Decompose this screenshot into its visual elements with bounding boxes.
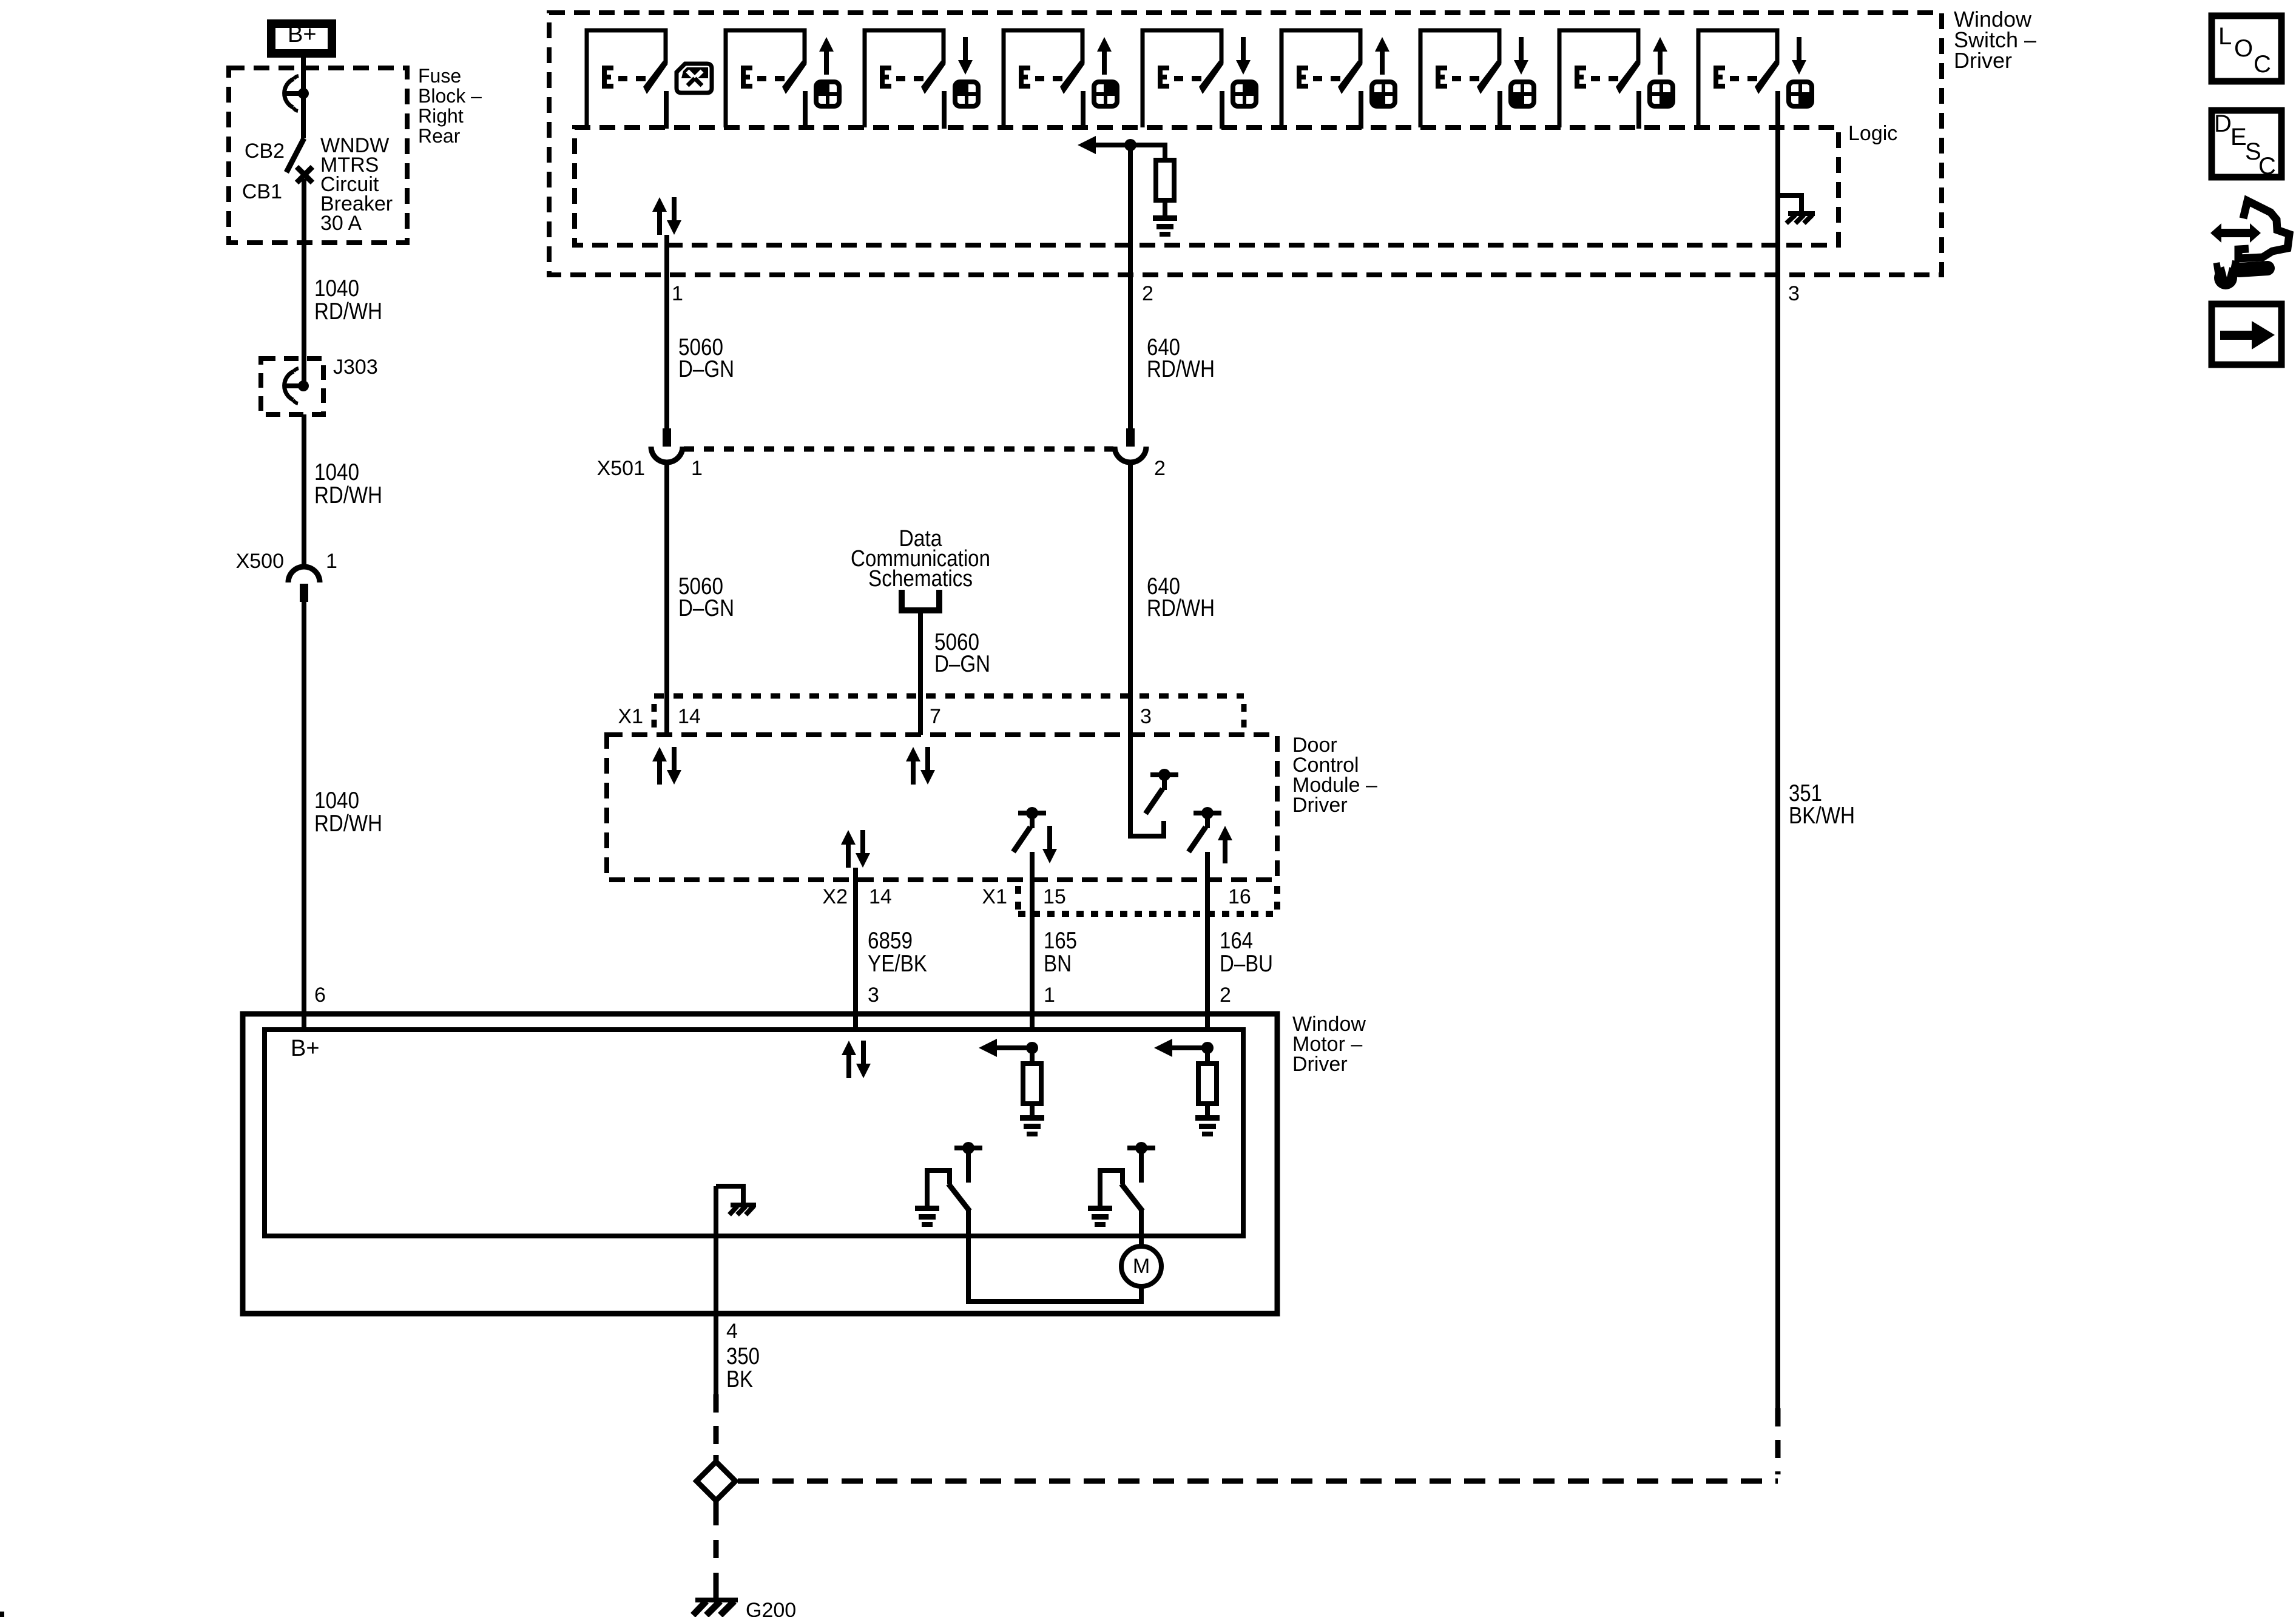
svg-text:B+: B+	[288, 22, 317, 47]
wire 2: pin2 to X501-2, 640 RD/WH	[1130, 275, 1215, 428]
wire X501-1 to X1-14, 5060 D-GN	[667, 464, 734, 735]
wire 3: pin 3 to splice, 351 BK/WH	[1778, 275, 1855, 1474]
window switch SW2 (TL up)	[726, 30, 839, 129]
svg-text:30 A: 30 A	[320, 212, 362, 235]
wire J303 to X500, 1040 RD/WH	[304, 414, 382, 569]
up/down arrows below pin 7	[906, 747, 935, 785]
svg-text:350: 350	[726, 1343, 760, 1369]
svg-text:D–BU: D–BU	[1220, 951, 1273, 977]
wire SW9 pole to ground branch and pin 3	[1775, 129, 1780, 275]
page corner mark	[0, 1612, 4, 1617]
window motor inner box	[265, 1030, 1243, 1236]
input arrow + pull resistor + ground at motor pin 1	[979, 1039, 1044, 1136]
svg-text:O: O	[2234, 35, 2253, 62]
svg-text:Logic: Logic	[1848, 122, 1897, 145]
dashed wire splice to wire 3 corner	[738, 1479, 1778, 1484]
svg-text:16: 16	[1228, 885, 1251, 908]
svg-text:3: 3	[1788, 282, 1800, 305]
svg-text:BK: BK	[726, 1366, 753, 1393]
label: Logic	[1848, 122, 1897, 145]
junction J303 (dashed box with splice)	[261, 356, 378, 414]
X501 dashed tie line	[684, 447, 1113, 452]
svg-text:1040: 1040	[314, 788, 359, 814]
motor switch A (to ground / feed)	[915, 1142, 982, 1227]
up/down arrows below motor pin 3	[842, 1041, 871, 1078]
pin 2	[1142, 282, 1153, 305]
svg-text:7: 7	[930, 705, 941, 728]
connector X2 label	[822, 885, 848, 908]
up/down arrows below pin 14	[652, 747, 681, 785]
svg-text:D–GN: D–GN	[678, 356, 734, 382]
ground G200	[693, 1599, 796, 1617]
wire 1: pin1 to X501-1, 5060 D-GN	[667, 245, 734, 428]
label 6859 YE/BK	[868, 928, 927, 977]
window switch SW3 (TL down)	[865, 30, 978, 129]
motor M	[1121, 1246, 1161, 1286]
svg-text:E: E	[2230, 124, 2247, 150]
wire B+ to fuse block	[301, 58, 306, 93]
label: Data Communication Schematics	[851, 526, 990, 592]
dashed wire splice to G200	[714, 1507, 719, 1598]
svg-text:1040: 1040	[314, 275, 359, 302]
up/down arrows above X2-14	[841, 830, 870, 868]
svg-text:RD/WH: RD/WH	[314, 482, 382, 508]
motor pin 2	[1220, 984, 1231, 1007]
pin 15	[1043, 885, 1066, 908]
junction node on wire 2 with direction arrow	[1078, 136, 1165, 160]
switch above pin 15 (window down)	[1013, 807, 1057, 863]
svg-text:Driver: Driver	[1292, 1053, 1348, 1076]
svg-text:Rear: Rear	[418, 125, 461, 147]
label 165 BN	[1044, 928, 1077, 977]
svg-text:6859: 6859	[868, 928, 913, 954]
window switch - driver outer box (dashed)	[549, 13, 1942, 275]
svg-text:D–GN: D–GN	[678, 595, 734, 621]
svg-text:YE/BK: YE/BK	[868, 951, 927, 977]
pin 4 and wire 350 BK	[716, 1314, 760, 1394]
label: Door Control Module - Driver	[1292, 734, 1377, 817]
label B+ inside motor	[291, 1036, 320, 1061]
wire pin 3 into module with hook	[1130, 735, 1164, 836]
svg-text:G200: G200	[746, 1599, 796, 1617]
svg-text:1: 1	[326, 550, 337, 573]
svg-text:Driver: Driver	[1954, 48, 2012, 73]
window switch SW4 (TR up)	[1004, 30, 1117, 129]
svg-text:B+: B+	[291, 1036, 320, 1061]
svg-text:14: 14	[678, 705, 701, 728]
switch (express) inside module	[1146, 769, 1178, 814]
legend LOC box	[2212, 16, 2281, 81]
wire pin1 inside logic	[664, 235, 669, 245]
legend DESC box	[2212, 110, 2281, 180]
window switch SW9 (BR down)	[1698, 30, 1812, 129]
wire CB to J303, 1040 RD/WH	[304, 179, 382, 386]
wire switch A common down and across to motor	[968, 1210, 1141, 1301]
wire splice to CB	[301, 93, 306, 138]
svg-text:3: 3	[868, 984, 879, 1007]
wire X2-14 to motor pin 3	[853, 868, 858, 1030]
switch above pin 16 (window up)	[1189, 807, 1232, 863]
svg-text:X2: X2	[822, 885, 848, 908]
input arrow + pull resistor + ground at motor pin 2	[1154, 1039, 1220, 1136]
svg-text:RD/WH: RD/WH	[314, 299, 382, 325]
pin 3	[1788, 282, 1800, 305]
dashed wire pin4 to splice	[714, 1394, 719, 1459]
wire switch B common to motor top	[1139, 1210, 1144, 1246]
wire data comm to X1-7, 5060 D-GN	[920, 610, 990, 735]
circuit breaker CB1/CB2 WNDW MTRS 30A	[242, 138, 312, 203]
svg-text:X501: X501	[597, 457, 645, 480]
svg-text:C: C	[2254, 51, 2271, 78]
motor pin 1	[1044, 984, 1055, 1007]
svg-text:X1: X1	[982, 885, 1007, 908]
wire X501-2 to X1-3, 640 RD/WH	[1130, 464, 1215, 735]
label: Window Switch - Driver	[1954, 7, 2036, 73]
svg-text:165: 165	[1044, 928, 1077, 954]
window switch SW8 (BR up)	[1559, 30, 1673, 129]
window switch SW7 (BL down)	[1420, 30, 1534, 129]
resistor in logic box	[1156, 160, 1174, 200]
svg-text:1: 1	[1044, 984, 1055, 1007]
svg-text:1: 1	[691, 457, 703, 480]
chassis ground inside motor box	[716, 1186, 756, 1215]
svg-text:C: C	[2258, 153, 2276, 180]
pin 3	[1140, 705, 1152, 728]
svg-text:RD/WH: RD/WH	[314, 811, 382, 837]
svg-text:Schematics: Schematics	[868, 566, 973, 592]
door control module - driver box (dashed)	[607, 735, 1277, 880]
svg-text:1: 1	[672, 282, 683, 305]
label 164 D-BU	[1220, 928, 1273, 977]
svg-text:D: D	[2214, 110, 2232, 137]
connector X1 (top) dotted line	[654, 696, 1244, 728]
svg-text:X1: X1	[618, 705, 643, 728]
label: Fuse Block - Right Rear	[418, 65, 482, 147]
svg-text:Driver: Driver	[1292, 794, 1348, 817]
svg-text:CB1: CB1	[242, 180, 282, 203]
svg-text:Block –: Block –	[418, 85, 482, 107]
window switch SW6 (BL up)	[1281, 30, 1395, 129]
pin 16	[1228, 885, 1251, 908]
svg-text:RD/WH: RD/WH	[1147, 595, 1215, 621]
svg-text:BN: BN	[1044, 951, 1072, 977]
earth ground under resistor	[1153, 215, 1177, 237]
data schematics bracket	[902, 590, 939, 610]
wire resistor to ground	[1163, 200, 1167, 215]
label: Window Motor - Driver	[1292, 1013, 1366, 1076]
legend forward arrow box	[2212, 304, 2281, 365]
label X1	[618, 705, 643, 728]
svg-text:J303: J303	[333, 356, 378, 379]
fuse block - right rear (dashed box)	[229, 68, 407, 243]
wire 2 inside logic to pin 2	[1128, 145, 1133, 275]
window switch SW5 (TR down)	[1143, 30, 1256, 129]
svg-text:4: 4	[726, 1320, 738, 1343]
splice in fuse block	[283, 76, 309, 111]
svg-text:14: 14	[869, 885, 892, 908]
pin 14 (X2)	[869, 885, 892, 908]
svg-text:M: M	[1133, 1255, 1150, 1278]
window motor - driver outer box	[243, 1014, 1277, 1314]
power feed B+ terminal	[271, 22, 332, 53]
wire pin 16 to motor pin 2	[1205, 852, 1210, 1030]
window switch SW1 (driver door)	[587, 30, 712, 129]
svg-text:BK/WH: BK/WH	[1789, 803, 1855, 829]
connector X1 bottom: label and dotted outline	[982, 885, 1277, 914]
svg-text:X500: X500	[236, 550, 284, 573]
label: WNDW MTRS Circuit Breaker 30 A	[320, 134, 393, 235]
pin 1	[672, 282, 683, 305]
logic box (dashed)	[575, 127, 1838, 245]
wire X500 to window motor pin 6, 1040 RD/WH	[304, 602, 382, 1030]
motor switch B (to ground / feed)	[1088, 1142, 1155, 1227]
svg-text:Right: Right	[418, 105, 464, 127]
chassis ground branch in logic box	[1778, 195, 1815, 223]
splice diamond	[697, 1455, 735, 1507]
pin 7	[930, 705, 941, 728]
connector X500 pin 1	[236, 550, 337, 602]
svg-text:2: 2	[1142, 282, 1153, 305]
svg-text:15: 15	[1043, 885, 1066, 908]
connector X501 pin 1	[597, 428, 703, 480]
up/down arrows in logic box	[652, 197, 681, 235]
svg-text:1040: 1040	[314, 459, 359, 485]
pin 14	[678, 705, 701, 728]
svg-text:6: 6	[314, 984, 326, 1007]
svg-text:3: 3	[1140, 705, 1152, 728]
wire pin 15 to motor pin 1	[1030, 852, 1035, 1030]
svg-text:2: 2	[1154, 457, 1166, 480]
svg-text:2: 2	[1220, 984, 1231, 1007]
legend diagnostic hand/wrench icon	[2210, 201, 2289, 289]
wire chassis ground to pin 4	[714, 1186, 718, 1314]
svg-text:CB2: CB2	[245, 140, 285, 163]
svg-text:164: 164	[1220, 928, 1253, 954]
svg-text:RD/WH: RD/WH	[1147, 356, 1215, 382]
svg-text:D–GN: D–GN	[934, 651, 990, 677]
motor pin 3	[868, 984, 879, 1007]
svg-text:L: L	[2218, 23, 2232, 50]
connector X501 pin 2	[1115, 428, 1166, 480]
svg-text:Fuse: Fuse	[418, 65, 461, 87]
